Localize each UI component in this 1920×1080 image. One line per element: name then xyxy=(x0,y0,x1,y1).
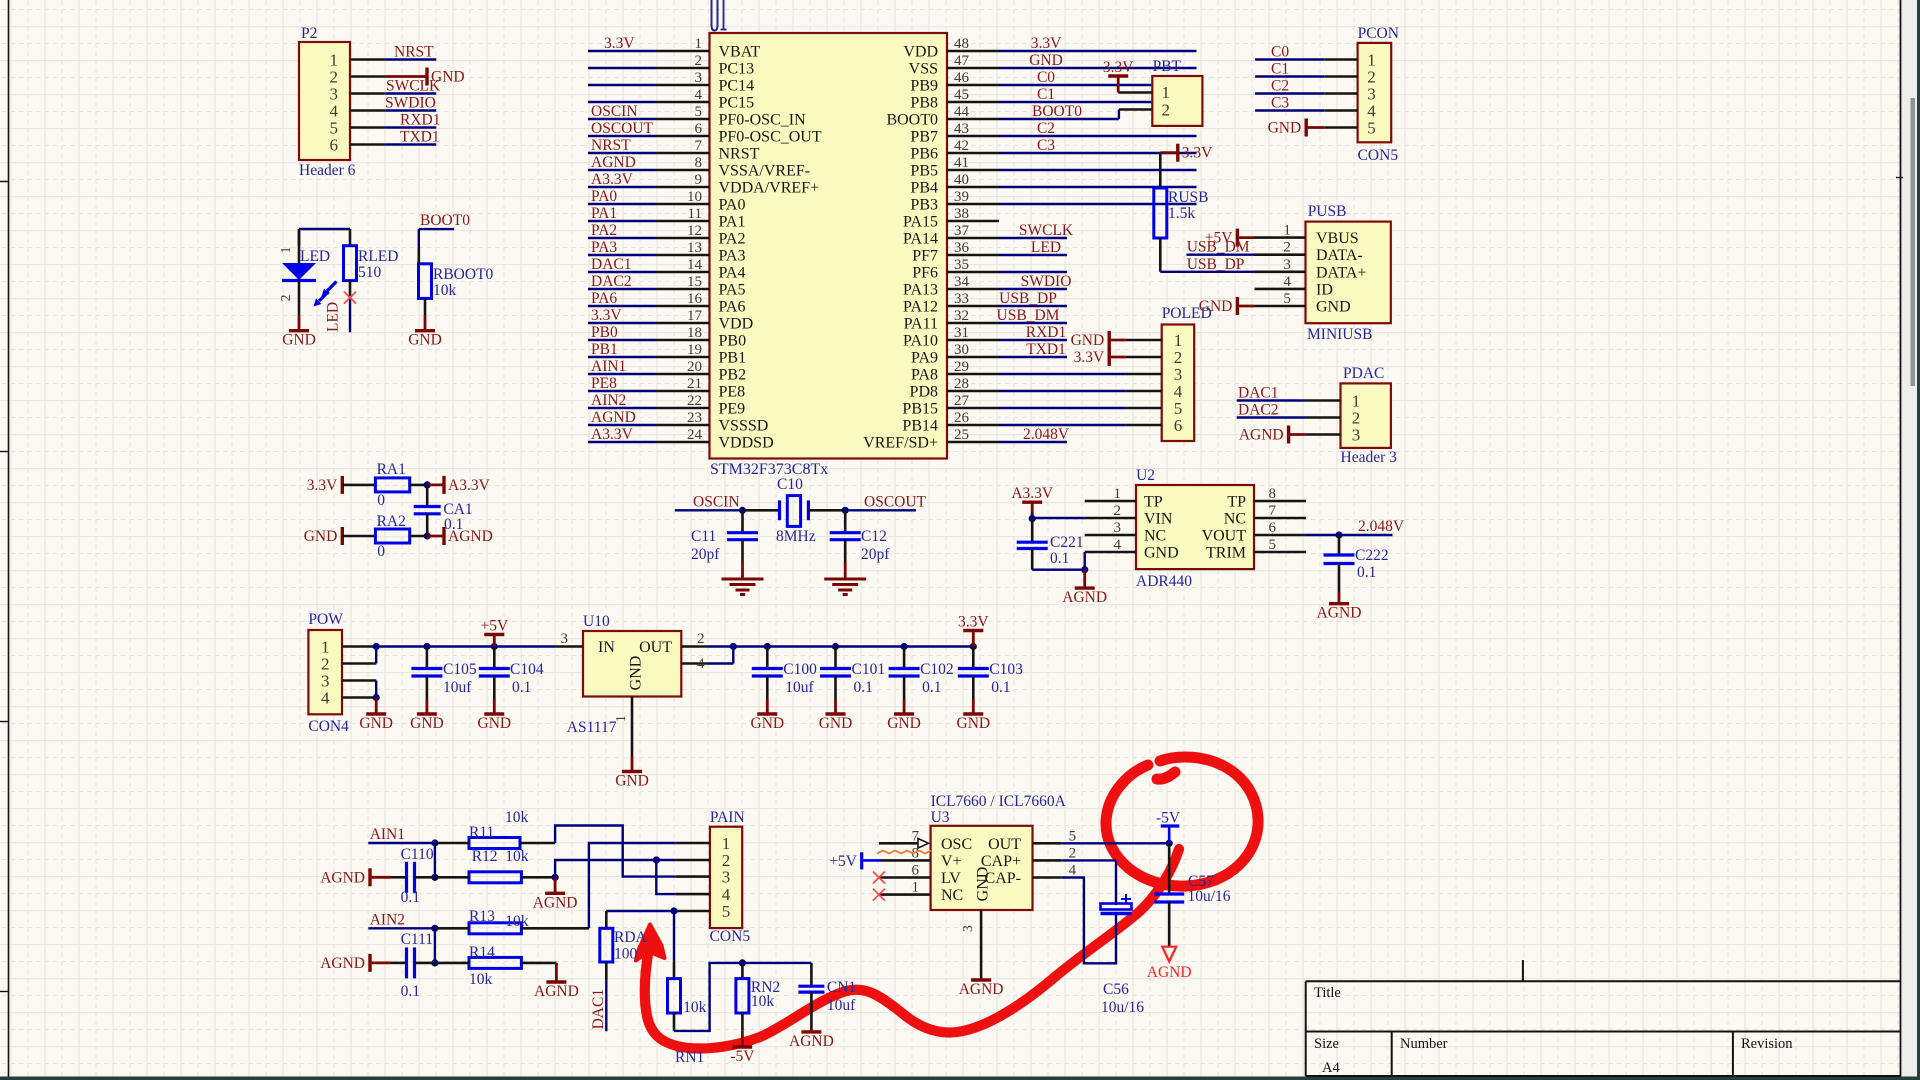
pin 24 VDDSD of U1 xyxy=(655,441,710,444)
orange squiggle at U3 pin8 xyxy=(877,851,931,854)
svg-text:CON5: CON5 xyxy=(1358,147,1399,164)
svg-text:VREF/SD+: VREF/SD+ xyxy=(863,435,938,452)
ground AGND at R12 xyxy=(554,877,557,893)
svg-text:AIN2: AIN2 xyxy=(370,912,405,929)
svg-text:LED: LED xyxy=(300,248,330,265)
svg-text:AGND: AGND xyxy=(591,409,636,426)
resistor RBOOT0 10k xyxy=(419,264,432,299)
pin stub POW 2 xyxy=(342,662,376,665)
wire U1 pin 16 xyxy=(588,305,655,307)
svg-text:GND: GND xyxy=(359,715,393,732)
svg-text:NRST: NRST xyxy=(591,137,631,154)
svg-text:AGND: AGND xyxy=(1239,427,1284,444)
svg-text:PB3: PB3 xyxy=(910,197,938,214)
svg-text:C12: C12 xyxy=(861,528,887,545)
wire U1 pin 30 xyxy=(999,356,1067,358)
pin stub U3 V+ xyxy=(881,859,931,862)
svg-text:PB8: PB8 xyxy=(910,95,938,112)
svg-text:OSCOUT: OSCOUT xyxy=(864,494,927,511)
svg-text:GND: GND xyxy=(887,715,921,732)
svg-text:39: 39 xyxy=(954,189,969,205)
pin stub PAIN 3 xyxy=(676,875,710,878)
svg-text:PF0-OSC_IN: PF0-OSC_IN xyxy=(719,112,807,129)
wire U1 pin 33 xyxy=(999,305,1067,307)
wire net DAC2 at PDAC xyxy=(1237,416,1306,418)
ground GND at C100 xyxy=(766,699,769,714)
svg-text:10k: 10k xyxy=(505,809,529,826)
svg-text:PB1: PB1 xyxy=(719,350,747,367)
svg-text:17: 17 xyxy=(687,308,703,324)
svg-text:22: 22 xyxy=(687,393,702,409)
wire U1 pin 12 xyxy=(588,237,655,239)
wire net TXD1 xyxy=(385,143,436,145)
wire U1 pin 6 xyxy=(588,135,655,137)
svg-text:A4: A4 xyxy=(1322,1060,1340,1076)
svg-text:10uf: 10uf xyxy=(443,679,472,696)
wire U1 pin 37 xyxy=(999,237,1067,239)
svg-text:26: 26 xyxy=(954,410,970,426)
pin 29 PA8 of U1 xyxy=(947,373,999,376)
svg-text:10k: 10k xyxy=(751,993,775,1010)
wire U1 pin 21 xyxy=(588,390,655,392)
svg-text:GND: GND xyxy=(628,656,645,691)
svg-text:25: 25 xyxy=(954,427,969,443)
svg-text:VSS: VSS xyxy=(909,61,938,78)
svg-text:PA3: PA3 xyxy=(719,248,746,265)
ground GND at C102 xyxy=(903,699,906,714)
svg-text:24: 24 xyxy=(687,427,703,443)
ground GND at C105 xyxy=(425,699,428,714)
svg-text:PA1: PA1 xyxy=(719,214,746,231)
svg-text:AIN1: AIN1 xyxy=(591,358,626,375)
wire U1 pin 40 xyxy=(999,186,1197,188)
svg-text:+5V: +5V xyxy=(480,618,508,635)
pin stub POLED 6 xyxy=(1126,424,1162,427)
svg-text:1: 1 xyxy=(912,880,920,896)
wire AIN1 down to C110 node xyxy=(434,843,436,877)
pin stub U2 right 8 xyxy=(1254,500,1306,503)
svg-text:OUT: OUT xyxy=(988,836,1021,853)
svg-text:LV: LV xyxy=(941,870,961,887)
svg-text:3.3V: 3.3V xyxy=(1103,59,1134,76)
wire U1 pin 23 xyxy=(588,424,655,426)
resistor RUSB 1.5k xyxy=(1159,153,1162,188)
wire U3 CAP+ to C56 xyxy=(1033,859,1062,862)
svg-text:OSC: OSC xyxy=(941,836,972,853)
svg-text:PB1: PB1 xyxy=(591,341,618,358)
svg-text:PA8: PA8 xyxy=(911,367,938,384)
wire R11 to PAIN pin3 xyxy=(555,826,676,877)
wire U1 pin 42 xyxy=(999,152,1197,154)
svg-text:0.1: 0.1 xyxy=(991,679,1010,696)
svg-text:A3.3V: A3.3V xyxy=(591,171,634,188)
svg-text:40: 40 xyxy=(954,172,969,188)
svg-text:RUSB: RUSB xyxy=(1168,189,1209,206)
svg-text:C103: C103 xyxy=(989,661,1023,678)
wire U1 pin 35 xyxy=(999,271,1067,273)
svg-text:4: 4 xyxy=(321,689,330,708)
svg-text:C222: C222 xyxy=(1355,547,1389,564)
svg-text:C110: C110 xyxy=(401,846,434,863)
svg-text:C101: C101 xyxy=(852,661,886,678)
svg-text:NRST: NRST xyxy=(394,44,434,61)
svg-text:NC: NC xyxy=(1224,511,1246,528)
ground GND at RA2 xyxy=(341,527,344,545)
svg-text:0.1: 0.1 xyxy=(1357,564,1376,581)
svg-text:PB0: PB0 xyxy=(591,324,618,341)
svg-text:+5V: +5V xyxy=(829,853,857,870)
wire C221 to AGND node xyxy=(1032,569,1085,571)
wire U1 pin 46 xyxy=(999,84,1197,86)
svg-text:5: 5 xyxy=(1367,119,1376,138)
power 3.3V at POLED pin2 xyxy=(1107,348,1110,366)
svg-text:510: 510 xyxy=(358,264,382,281)
svg-text:3: 3 xyxy=(561,631,569,647)
svg-text:OSCIN: OSCIN xyxy=(693,494,740,511)
pin stub P2 xyxy=(350,58,385,61)
wire net DAC1 below RDAC xyxy=(605,962,608,980)
svg-text:PBT: PBT xyxy=(1153,58,1182,75)
svg-text:10uf: 10uf xyxy=(785,679,814,696)
svg-text:AGND: AGND xyxy=(533,894,578,911)
wire U1 pin 8 xyxy=(588,169,655,171)
wire net DAC1 at PDAC xyxy=(1237,399,1306,401)
svg-text:OSCIN: OSCIN xyxy=(591,103,638,120)
wire U1 pin 18 xyxy=(588,339,655,341)
svg-text:0.1: 0.1 xyxy=(401,889,420,906)
svg-text:A3.3V: A3.3V xyxy=(591,426,634,443)
ground GND at PCON pin5 xyxy=(1304,119,1307,137)
wire U1 pin 43 xyxy=(999,135,1197,137)
pin 39 PB3 of U1 xyxy=(947,203,999,206)
wire PAIN pin5 node xyxy=(606,910,675,912)
wire U1 pin 28 xyxy=(999,390,1126,392)
svg-text:PA6: PA6 xyxy=(719,299,746,316)
svg-text:PA2: PA2 xyxy=(719,231,746,248)
svg-text:GND: GND xyxy=(410,715,444,732)
resistor RDAC 1000 xyxy=(605,911,608,928)
svg-text:R12: R12 xyxy=(472,848,498,865)
pin 28 PD8 of U1 xyxy=(947,390,999,393)
svg-text:0.1: 0.1 xyxy=(512,679,531,696)
svg-text:TXD1: TXD1 xyxy=(1026,341,1066,358)
svg-text:PB4: PB4 xyxy=(910,180,938,197)
svg-text:5: 5 xyxy=(1069,828,1077,844)
svg-text:4: 4 xyxy=(1283,274,1291,290)
wire U1 pin 5 xyxy=(588,118,655,120)
svg-text:10k: 10k xyxy=(505,848,529,865)
svg-text:C102: C102 xyxy=(920,661,954,678)
svg-text:R13: R13 xyxy=(469,908,495,925)
svg-text:19: 19 xyxy=(687,342,702,358)
svg-text:8: 8 xyxy=(1269,486,1277,502)
svg-text:GND: GND xyxy=(408,332,442,349)
wire LED top xyxy=(299,228,350,230)
svg-text:RXD1: RXD1 xyxy=(1026,324,1066,341)
svg-text:14: 14 xyxy=(687,257,703,273)
pin 22 PE9 of U1 xyxy=(655,407,710,410)
connector PAIN (CON5) xyxy=(710,827,742,928)
connector POW (CON4) xyxy=(308,630,342,714)
pin 23 VSSSD of U1 xyxy=(655,424,710,427)
svg-text:GND: GND xyxy=(282,332,316,349)
pin 30 PA9 of U1 xyxy=(947,356,999,359)
svg-text:GND: GND xyxy=(1316,299,1351,316)
pin 17 VDD of U1 xyxy=(655,322,710,325)
svg-text:PC15: PC15 xyxy=(719,95,755,112)
svg-text:NC: NC xyxy=(941,887,963,904)
wire U1 pin 11 xyxy=(588,220,655,222)
svg-text:PA4: PA4 xyxy=(719,265,746,282)
svg-text:PA1: PA1 xyxy=(591,205,617,222)
svg-text:U10: U10 xyxy=(583,613,610,630)
svg-text:3.3V: 3.3V xyxy=(307,477,338,494)
wire net C1 at PCON xyxy=(1255,75,1324,77)
pin stub PUSB ID xyxy=(1255,288,1306,291)
svg-text:PE8: PE8 xyxy=(591,375,617,392)
pin 13 PA3 of U1 xyxy=(655,254,710,257)
svg-text:8MHz: 8MHz xyxy=(776,528,816,545)
svg-text:PC14: PC14 xyxy=(719,78,755,95)
svg-text:0: 0 xyxy=(377,543,385,560)
wire U3 CAP- to C56 bottom xyxy=(1033,876,1062,879)
svg-text:7: 7 xyxy=(1269,503,1277,519)
wire U1 pin 3 xyxy=(588,84,655,86)
svg-text:42: 42 xyxy=(954,138,969,154)
ground AGND at U2 xyxy=(1083,570,1086,588)
svg-text:PB14: PB14 xyxy=(902,418,938,435)
svg-text:PA12: PA12 xyxy=(903,299,938,316)
svg-text:PB7: PB7 xyxy=(910,129,938,146)
pin 25 VREF/SD+ of U1 xyxy=(947,441,999,444)
ground AGND at C222 xyxy=(1338,592,1341,604)
svg-text:VBUS: VBUS xyxy=(1316,230,1359,247)
capacitor C12 20pf xyxy=(844,510,847,532)
earth ground at C11 xyxy=(741,562,744,579)
svg-text:38: 38 xyxy=(954,206,969,222)
svg-text:4: 4 xyxy=(697,656,705,672)
capacitor CN1 10uf xyxy=(810,963,813,986)
svg-text:3: 3 xyxy=(960,925,975,932)
svg-text:20pf: 20pf xyxy=(861,546,890,563)
svg-text:4: 4 xyxy=(695,87,703,103)
svg-text:AGND: AGND xyxy=(320,955,365,972)
pin stubs PBT xyxy=(1118,91,1152,94)
svg-text:NRST: NRST xyxy=(719,146,760,163)
power -5V at RN2 xyxy=(741,1013,744,1030)
svg-text:20pf: 20pf xyxy=(691,546,720,563)
svg-text:Number: Number xyxy=(1400,1036,1448,1052)
svg-text:2: 2 xyxy=(278,295,293,302)
capacitor C102 0.1 xyxy=(901,643,908,650)
svg-text:13: 13 xyxy=(687,240,702,256)
wire U1 pin 9 xyxy=(588,186,655,188)
svg-text:C0: C0 xyxy=(1271,44,1289,61)
pin stub POLED 3 xyxy=(1126,373,1162,376)
svg-text:8: 8 xyxy=(695,155,703,171)
svg-text:PE9: PE9 xyxy=(719,401,746,418)
pin stub POW 4 xyxy=(342,696,376,699)
svg-text:1: 1 xyxy=(1283,223,1291,239)
pin 38 PA15 of U1 xyxy=(947,220,999,223)
pin 18 PB0 of U1 xyxy=(655,339,710,342)
svg-text:PA0: PA0 xyxy=(719,197,746,214)
svg-text:AS1117: AS1117 xyxy=(567,719,617,736)
svg-text:MINIUSB: MINIUSB xyxy=(1307,326,1372,343)
pin stub U10 OUT xyxy=(681,645,708,648)
wire RA2 to AGND xyxy=(410,535,428,538)
ground AGND at PDAC pin3 xyxy=(1287,426,1290,444)
svg-text:43: 43 xyxy=(954,121,969,137)
svg-text:47: 47 xyxy=(954,53,970,69)
pin stub U2 left 2 xyxy=(1085,517,1136,520)
svg-text:C3: C3 xyxy=(1271,95,1289,112)
power +5V blue at U3 xyxy=(860,852,863,869)
svg-text:PA2: PA2 xyxy=(591,222,617,239)
pin stub U2 left 1 xyxy=(1085,500,1136,503)
svg-text:1: 1 xyxy=(1162,83,1171,102)
svg-text:PA0: PA0 xyxy=(591,188,617,205)
svg-text:PA6: PA6 xyxy=(591,290,617,307)
svg-text:RBOOT0: RBOOT0 xyxy=(433,266,494,283)
svg-text:0.1: 0.1 xyxy=(854,679,873,696)
svg-text:46: 46 xyxy=(954,70,970,86)
svg-text:-5V: -5V xyxy=(1156,810,1181,827)
svg-text:VBAT: VBAT xyxy=(719,44,761,61)
svg-text:AGND: AGND xyxy=(1317,605,1362,622)
svg-text:DAC1: DAC1 xyxy=(591,256,631,273)
pin 41 PB5 of U1 xyxy=(947,169,999,172)
svg-text:PA15: PA15 xyxy=(903,214,938,231)
pin 4 PC15 of U1 xyxy=(655,101,710,104)
svg-text:18: 18 xyxy=(687,325,702,341)
svg-text:STM32F373C8Tx: STM32F373C8Tx xyxy=(710,461,828,478)
svg-text:30: 30 xyxy=(954,342,969,358)
svg-text:Title: Title xyxy=(1314,985,1341,1001)
wire AIN2 down to C111 node xyxy=(434,928,436,963)
svg-text:4: 4 xyxy=(1114,537,1122,553)
wire U1 pin 13 xyxy=(588,254,655,256)
svg-text:GND: GND xyxy=(1029,52,1063,69)
capacitor C56 10u/16 polarized xyxy=(1101,904,1132,910)
svg-text:AIN1: AIN1 xyxy=(370,826,405,843)
svg-text:PA11: PA11 xyxy=(904,316,938,333)
svg-text:PE8: PE8 xyxy=(719,384,746,401)
power 3.3V at RA1 xyxy=(341,476,344,494)
svg-text:NC: NC xyxy=(1144,528,1166,545)
sheet border right + scrollbar xyxy=(1900,0,1902,1080)
svg-text:VSSA/VREF-: VSSA/VREF- xyxy=(719,163,811,180)
svg-text:37: 37 xyxy=(954,223,970,239)
wire BOOT0 to PBT pin2 xyxy=(1118,110,1120,120)
window bottom edge xyxy=(0,1077,1920,1080)
wire net RXD1 xyxy=(385,126,436,128)
ground GND at LED xyxy=(298,281,301,316)
ground GND at POW xyxy=(375,698,378,715)
svg-text:PB6: PB6 xyxy=(910,146,938,163)
ground AGND at CN1 xyxy=(810,1028,813,1032)
pin 36 PF7 of U1 xyxy=(947,254,999,257)
power +5V at C104 xyxy=(484,633,504,636)
resistor R14 10k xyxy=(469,957,521,968)
svg-text:SWDIO: SWDIO xyxy=(1021,273,1072,290)
svg-text:BOOT0: BOOT0 xyxy=(886,112,938,129)
svg-text:USB_DP: USB_DP xyxy=(999,290,1057,307)
svg-text:AGND: AGND xyxy=(534,983,579,1000)
svg-text:2.048V: 2.048V xyxy=(1358,518,1405,535)
svg-text:C11: C11 xyxy=(691,528,716,545)
svg-text:41: 41 xyxy=(954,155,969,171)
svg-text:VDD: VDD xyxy=(903,44,938,61)
svg-text:AGND: AGND xyxy=(591,154,636,171)
wire U1 pin 41 xyxy=(999,169,1197,171)
pin 43 PB7 of U1 xyxy=(947,135,999,138)
svg-text:USB_DM: USB_DM xyxy=(1187,239,1250,256)
svg-text:23: 23 xyxy=(687,410,702,426)
svg-text:CON4: CON4 xyxy=(308,718,349,735)
pin 34 PA13 of U1 xyxy=(947,288,999,291)
svg-text:27: 27 xyxy=(954,393,970,409)
svg-text:GND: GND xyxy=(819,715,853,732)
red marker arrow xyxy=(636,925,665,961)
wire U1 pin 45 xyxy=(999,101,1197,103)
svg-text:5: 5 xyxy=(1283,291,1291,307)
svg-text:10u/16: 10u/16 xyxy=(1101,999,1144,1016)
pin 21 PE8 of U1 xyxy=(655,390,710,393)
pin stub PCON 2 xyxy=(1324,75,1357,78)
svg-text:45: 45 xyxy=(954,87,969,103)
wire U1 pin 17 xyxy=(588,322,655,324)
svg-text:Header 6: Header 6 xyxy=(299,162,356,179)
pin 16 PA6 of U1 xyxy=(655,305,710,308)
svg-text:Header 3: Header 3 xyxy=(1341,449,1398,466)
svg-text:4: 4 xyxy=(1069,863,1077,879)
pin stub U3 LV no-connect xyxy=(879,876,931,879)
LED diode LED xyxy=(298,229,301,263)
wire U1 pin 27 xyxy=(999,407,1126,409)
svg-text:2: 2 xyxy=(1162,101,1171,120)
wire +5V rail xyxy=(376,645,555,647)
svg-text:3.3V: 3.3V xyxy=(1031,35,1062,52)
svg-text:20: 20 xyxy=(687,359,702,375)
capacitor C110 0.1 xyxy=(405,862,408,893)
svg-text:1: 1 xyxy=(1114,486,1122,502)
svg-text:2: 2 xyxy=(1114,503,1122,519)
svg-text:C0: C0 xyxy=(1037,69,1055,86)
svg-text:BOOT0: BOOT0 xyxy=(420,212,470,229)
pin stub U10 IN xyxy=(555,645,583,648)
wire U1 pin 34 xyxy=(999,288,1067,290)
svg-text:6: 6 xyxy=(695,121,703,137)
svg-text:PF7: PF7 xyxy=(912,248,938,265)
svg-text:9: 9 xyxy=(695,172,703,188)
svg-text:PA5: PA5 xyxy=(719,282,746,299)
pin 3 PC14 of U1 xyxy=(655,84,710,87)
pin 27 PB15 of U1 xyxy=(947,407,999,410)
pin 33 PA12 of U1 xyxy=(947,305,999,308)
ground AGND at R14 xyxy=(555,963,558,982)
svg-text:CN1: CN1 xyxy=(827,979,856,996)
pin 9 VDDA/VREF+ of U1 xyxy=(655,186,710,189)
wire U1 pin 7 xyxy=(588,152,655,154)
svg-text:32: 32 xyxy=(954,308,969,324)
svg-text:C2: C2 xyxy=(1037,120,1055,137)
svg-text:PAIN: PAIN xyxy=(710,809,745,826)
pin 7 NRST of U1 xyxy=(655,152,710,155)
wire U1 pin 19 xyxy=(588,356,655,358)
svg-text:PC13: PC13 xyxy=(719,61,755,78)
resistor RA1 0 xyxy=(375,478,409,492)
